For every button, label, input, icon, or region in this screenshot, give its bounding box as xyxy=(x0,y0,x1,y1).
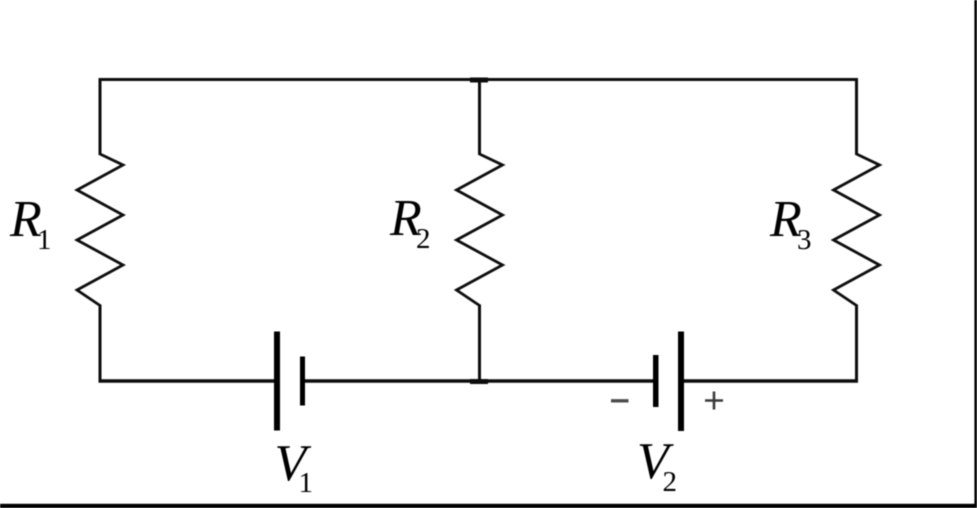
battery V2 long plate (right) xyxy=(678,332,684,432)
resistor R2 xyxy=(457,154,503,306)
battery V2 short plate (left) xyxy=(653,355,659,407)
wire R2 bottom lead xyxy=(478,305,481,383)
resistor R3 xyxy=(834,154,880,306)
polarity plus sign (V2 right) xyxy=(705,392,723,410)
wire R1 bottom lead xyxy=(99,305,102,383)
wire V2 to bottom right corner xyxy=(684,379,858,382)
svg-text:1: 1 xyxy=(37,224,52,256)
wire bottom left segment (R1 to V1) xyxy=(99,379,275,382)
svg-text:3: 3 xyxy=(797,224,812,256)
wire V1 to center node xyxy=(305,379,480,382)
node junction (R2 top) xyxy=(470,78,488,83)
wire R3 bottom lead xyxy=(855,305,858,383)
label V1 xyxy=(275,435,314,499)
battery V2 xyxy=(653,332,684,432)
wire right lead (top wire to R3) xyxy=(855,78,858,155)
resistor R1 xyxy=(77,154,123,306)
wire top bus xyxy=(99,78,859,81)
wire center node to V2 xyxy=(480,379,654,382)
svg-text:2: 2 xyxy=(416,223,431,255)
label R1 xyxy=(9,191,52,256)
label R3 xyxy=(769,191,812,256)
node junction (R2 bottom) xyxy=(470,379,488,384)
battery V1 long plate (left) xyxy=(274,332,280,431)
battery V1 short plate (right) xyxy=(300,357,305,406)
wire R2 top lead xyxy=(478,78,481,155)
battery V1 xyxy=(274,332,305,431)
polarity minus sign (V2 left) xyxy=(611,399,629,402)
label R2 xyxy=(389,190,431,255)
wire left lead (top wire to R1) xyxy=(99,78,102,155)
label V2 xyxy=(637,433,677,498)
svg-text:1: 1 xyxy=(299,467,314,499)
svg-text:2: 2 xyxy=(663,466,678,498)
